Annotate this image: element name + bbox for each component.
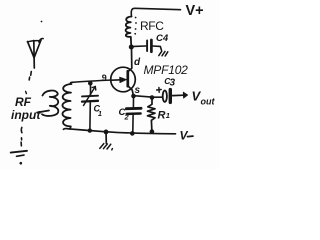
input underline stroke bbox=[37, 111, 49, 113]
Q1 gate arrow bbox=[111, 79, 124, 82]
C4 label bbox=[156, 33, 169, 44]
svg-text:s: s bbox=[135, 85, 141, 96]
node: gate / C1 junction bbox=[88, 81, 93, 86]
R1 label bbox=[158, 110, 170, 122]
svg-text:R: R bbox=[158, 110, 166, 122]
capacitor C4 bbox=[147, 40, 161, 52]
svg-text:MPF102: MPF102 bbox=[144, 63, 189, 77]
wire: bottom rail bbox=[64, 128, 176, 133]
svg-text:C4: C4 bbox=[156, 33, 169, 44]
node: C1 bottom junction bbox=[88, 128, 92, 132]
svg-text:2: 2 bbox=[124, 113, 130, 122]
node: drain/RFC/C4 junction bbox=[129, 45, 134, 50]
C2 label bbox=[119, 107, 130, 122]
RFC core dots bbox=[134, 17, 137, 35]
Q1 source lead bbox=[128, 86, 134, 95]
wire: junction to C4 bbox=[134, 45, 146, 47]
tick over RF bbox=[25, 91, 28, 93]
antenna feed dashed line (bottom-left) bbox=[20, 128, 23, 146]
wire: source node to output bbox=[136, 96, 151, 97]
svg-text:1: 1 bbox=[98, 111, 102, 118]
net label V+ bbox=[186, 3, 204, 19]
capacitor C3 (electrolytic) bbox=[163, 91, 167, 102]
svg-text:V: V bbox=[180, 129, 189, 143]
capacitor C2 bbox=[126, 98, 141, 131]
svg-text:input: input bbox=[11, 108, 41, 122]
transformer primary L1a bbox=[42, 91, 58, 116]
wire: junction to C3 bbox=[154, 96, 162, 98]
svg-text:d: d bbox=[134, 57, 141, 68]
node: source junction bbox=[131, 94, 136, 99]
svg-text:1: 1 bbox=[166, 111, 170, 120]
ground (antenna) bbox=[11, 151, 27, 165]
svg-text:RF: RF bbox=[15, 95, 32, 109]
RF input label bbox=[11, 95, 41, 122]
net label Vout bbox=[192, 89, 216, 107]
stray speck bbox=[41, 21, 43, 23]
node: C2 bottom junction bbox=[130, 131, 135, 136]
Q1 channel bar bbox=[126, 71, 129, 86]
svg-text:out: out bbox=[201, 97, 216, 107]
capacitor C1 (variable) bbox=[82, 85, 98, 129]
C1 value label bbox=[94, 104, 103, 119]
ground (tank) bbox=[105, 134, 107, 143]
node: R1 bottom junction bbox=[150, 129, 155, 134]
transistor Q1 MPF102 circle bbox=[111, 67, 136, 92]
inductor RFC bbox=[126, 17, 132, 46]
resistor R1 bbox=[148, 100, 156, 130]
antenna bbox=[28, 38, 44, 80]
Q1 drain lead bbox=[128, 49, 132, 72]
net label V- bbox=[180, 129, 189, 143]
node: R1 top junction bbox=[150, 95, 155, 100]
node: ground stem junction bbox=[104, 130, 109, 135]
wire: tank top to gate bbox=[70, 80, 111, 84]
svg-text:9: 9 bbox=[102, 73, 107, 83]
transformer secondary L1b bbox=[62, 84, 71, 129]
wire: top rail to V+ bbox=[131, 8, 180, 16]
wire: output arrow bbox=[173, 94, 184, 96]
svg-text:V+: V+ bbox=[186, 3, 204, 19]
polarity plus bbox=[157, 87, 162, 92]
svg-text:3: 3 bbox=[170, 78, 176, 89]
svg-text:RFC: RFC bbox=[140, 19, 164, 33]
ground (C4) bbox=[159, 51, 168, 56]
C3 label bbox=[164, 76, 175, 89]
